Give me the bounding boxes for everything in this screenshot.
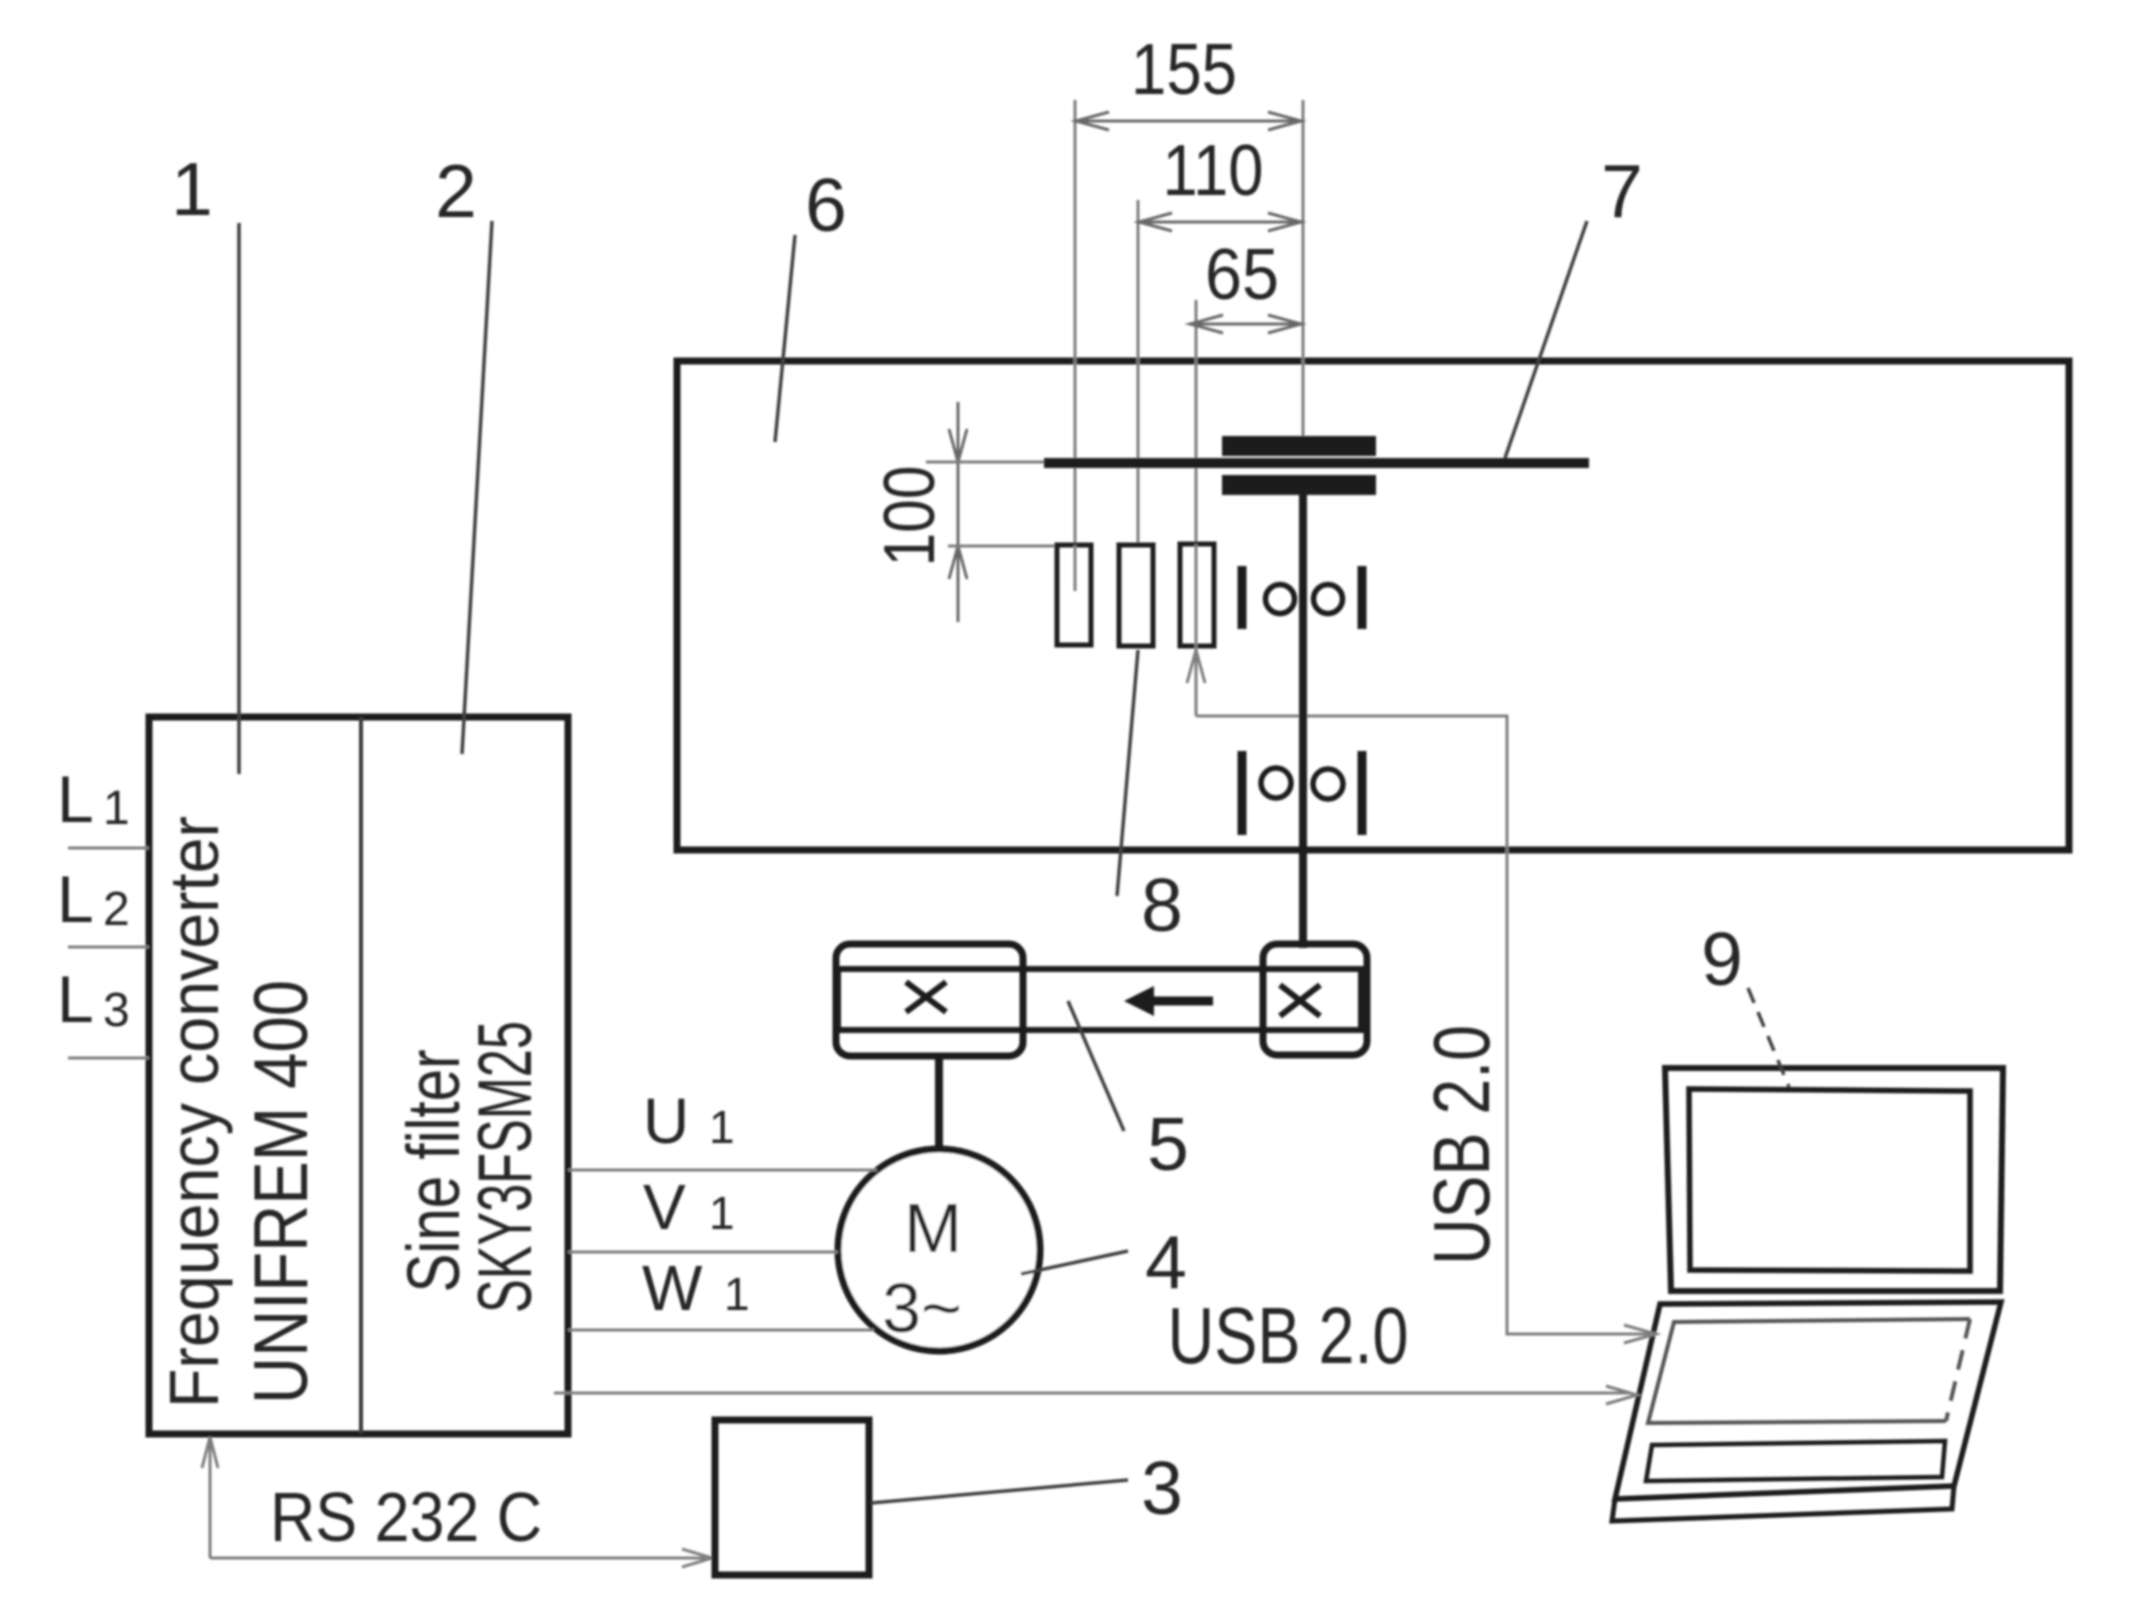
svg-text:2: 2 xyxy=(435,149,477,233)
test rig frame box 6 xyxy=(677,361,2069,850)
laptop screen inner xyxy=(1689,1089,1970,1271)
upper bearing right bar xyxy=(1358,566,1367,629)
sensor 3 up arrow xyxy=(1187,650,1205,683)
dimension extension line right / shaft axis xyxy=(1302,100,1305,436)
leader line 4 xyxy=(1021,1251,1128,1274)
coupling bar 5 xyxy=(838,969,1361,1030)
svg-text:1: 1 xyxy=(709,1187,735,1239)
sensor rect 3 xyxy=(1180,544,1214,646)
svg-text:M: M xyxy=(904,1189,962,1267)
upper bearing ball right xyxy=(1314,585,1343,614)
shaft xyxy=(1299,495,1307,948)
terminal L2 stub wire xyxy=(68,946,149,949)
leader line 7 xyxy=(1505,221,1587,458)
svg-text:3: 3 xyxy=(103,984,130,1037)
RS232 wire to box 3 xyxy=(210,1557,706,1560)
terminal L3 stub wire xyxy=(68,1057,149,1060)
svg-text:3~: 3~ xyxy=(882,1269,962,1347)
leader line 1 xyxy=(237,223,241,774)
svg-text:8: 8 xyxy=(1141,863,1183,947)
svg-text:100: 100 xyxy=(870,466,950,567)
svg-text:1: 1 xyxy=(724,1268,750,1320)
svg-text:1: 1 xyxy=(103,782,130,835)
coupling right flange xyxy=(1263,944,1367,1055)
wire W1 xyxy=(568,1329,874,1332)
sensor rect 1 xyxy=(1057,545,1091,645)
leader line 5 xyxy=(1068,1001,1124,1131)
svg-text:UNIFREM 400: UNIFREM 400 xyxy=(239,980,324,1404)
compartment divider xyxy=(359,717,363,1434)
svg-text:RS 232 C: RS 232 C xyxy=(270,1478,542,1556)
svg-text:6: 6 xyxy=(805,163,847,247)
USB arrow into laptop xyxy=(1624,1325,1656,1343)
disc bottom plate 7 xyxy=(1222,475,1376,495)
svg-text:V: V xyxy=(643,1171,686,1243)
sensor rect 2 xyxy=(1119,545,1153,646)
svg-text:L: L xyxy=(57,962,94,1036)
svg-text:Frequency converter: Frequency converter xyxy=(155,816,233,1408)
coupling left flange xyxy=(836,944,1023,1056)
wire U1 xyxy=(568,1169,877,1172)
laptop front strip xyxy=(1646,1441,1945,1481)
lower bearing ball right xyxy=(1313,769,1343,799)
dimension 65 line xyxy=(1190,323,1301,326)
frequency converter + sine filter unit box (1,2) xyxy=(149,717,568,1434)
svg-text:2: 2 xyxy=(103,883,130,936)
wire V1 xyxy=(568,1251,838,1254)
leader line 3 xyxy=(871,1480,1128,1503)
coupling arrow xyxy=(1152,997,1213,1006)
svg-text:3: 3 xyxy=(1141,1446,1183,1530)
lever beam 7 xyxy=(1044,458,1589,468)
svg-text:USB 2.0: USB 2.0 xyxy=(1168,1291,1409,1380)
svg-text:110: 110 xyxy=(1163,131,1264,211)
coupling left X xyxy=(906,982,946,1012)
coupling stub to motor xyxy=(935,1056,943,1152)
svg-text:L: L xyxy=(57,762,94,836)
lower bearing ball left xyxy=(1261,768,1291,798)
lower bearing left bar xyxy=(1238,751,1247,835)
sensor 3 probe line through xyxy=(1195,544,1198,716)
laptop base xyxy=(1615,1302,2001,1499)
svg-text:65: 65 xyxy=(1205,235,1279,315)
leader line 6 xyxy=(775,235,795,442)
svg-text:9: 9 xyxy=(1701,917,1743,1001)
terminal L1 stub wire xyxy=(68,847,149,850)
coupling right X xyxy=(1280,985,1320,1016)
dimension extension line (110) xyxy=(1137,200,1140,545)
upper bearing ball left xyxy=(1266,585,1295,614)
svg-text:155: 155 xyxy=(1131,30,1237,110)
serial wire to laptop xyxy=(554,1392,1630,1395)
svg-text:1: 1 xyxy=(709,1101,735,1153)
motor circle 4 xyxy=(838,1149,1040,1351)
leader line 9 dashed xyxy=(1748,988,1789,1087)
upper bearing left bar xyxy=(1238,566,1247,629)
USB wire from sensor to laptop xyxy=(1196,716,1650,1334)
dimension extension line (65) / sensor-3 probe line xyxy=(1195,300,1198,716)
laptop bottom band xyxy=(1612,1486,1954,1521)
disc top plate 7 xyxy=(1222,436,1376,456)
laptop keyboard dashed edge xyxy=(1946,1319,1970,1421)
svg-text:SKY3FSM25: SKY3FSM25 xyxy=(463,1021,548,1313)
leader line 8 xyxy=(1117,650,1138,896)
serial wire arrow xyxy=(1606,1386,1637,1404)
laptop 9 lid outer xyxy=(1665,1068,2003,1291)
svg-text:7: 7 xyxy=(1601,149,1643,233)
laptop keyboard area xyxy=(1648,1319,1970,1423)
dimension 100 vertical line xyxy=(957,402,960,622)
svg-text:5: 5 xyxy=(1147,1102,1189,1186)
leader line 2 xyxy=(462,221,492,754)
lower bearing right bar xyxy=(1358,751,1367,835)
svg-text:USB 2.0: USB 2.0 xyxy=(1417,1025,1506,1265)
interface box 3 xyxy=(715,1420,869,1575)
svg-text:W: W xyxy=(642,1252,703,1324)
dimension 100 reference line top xyxy=(926,461,1050,464)
sensor 1 probe line inside xyxy=(1074,545,1077,591)
dimension extension line left (155) xyxy=(1074,100,1077,591)
dimension 155 line xyxy=(1076,120,1301,123)
RS232 up arrow into converter xyxy=(209,1440,212,1558)
svg-text:L: L xyxy=(57,862,94,936)
dimension 110 line xyxy=(1139,221,1301,224)
svg-text:1: 1 xyxy=(171,147,213,231)
svg-text:U: U xyxy=(643,1085,689,1157)
dimension 100 reference line bottom xyxy=(948,545,1058,548)
